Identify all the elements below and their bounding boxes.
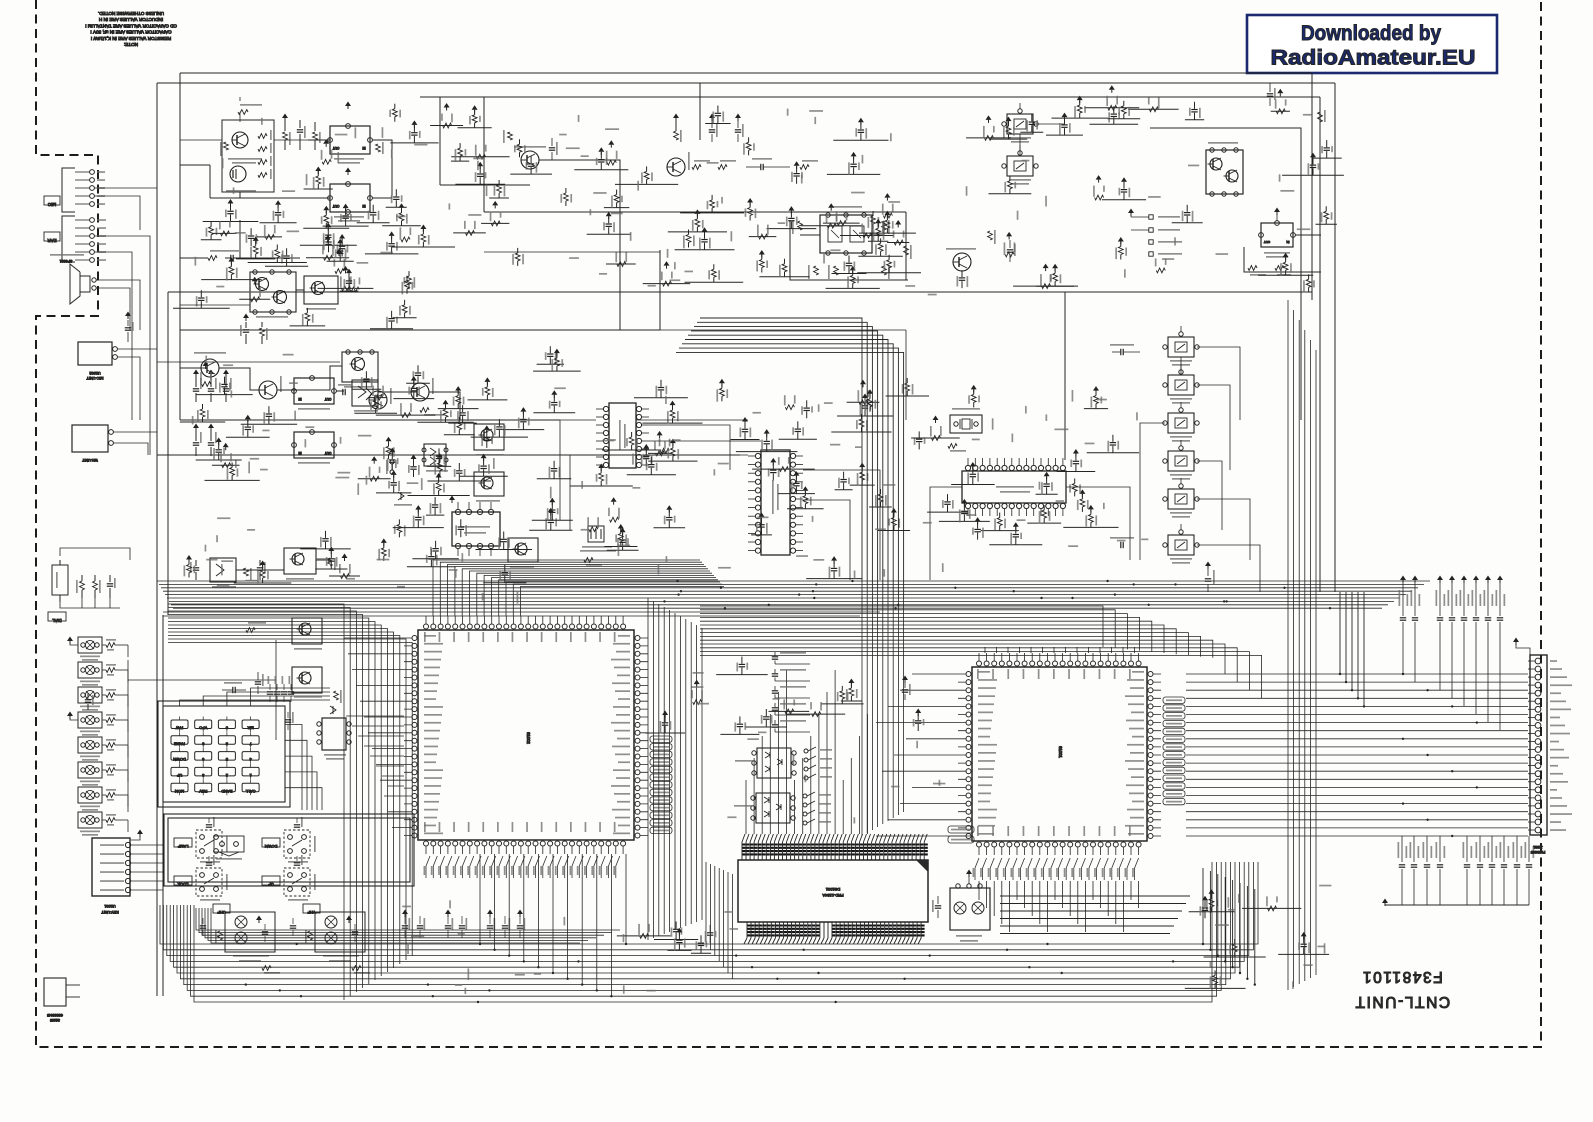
resonator DB1001 CSMC3.58 xyxy=(588,526,604,542)
wire switch col xyxy=(1020,124,1260,592)
bus fan top-center to right-mid verticals xyxy=(676,318,904,598)
ground xyxy=(1202,896,1208,901)
ground xyxy=(472,105,478,110)
wire xyxy=(236,258,275,260)
resistor R1377 xyxy=(402,413,411,418)
wire xyxy=(386,206,407,208)
ground xyxy=(260,561,266,566)
wire xyxy=(1084,408,1108,410)
capacitor C1543 xyxy=(365,382,367,389)
wire xyxy=(340,290,359,292)
resistor R1475 xyxy=(841,699,843,704)
wire xyxy=(858,255,903,257)
bus right vertical extra xyxy=(1203,592,1364,985)
capacitor C1078 0.1 xyxy=(711,120,713,128)
wire xyxy=(1057,471,1096,473)
capacitor C1687 xyxy=(675,933,677,940)
svg-text:DS1001: DS1001 xyxy=(825,887,840,892)
resistor R1445 xyxy=(317,184,319,189)
resistor 470 xyxy=(308,931,313,940)
ground xyxy=(1013,522,1019,527)
resistor R1556 xyxy=(827,223,836,228)
resistor R1065 xyxy=(906,391,908,396)
wire xyxy=(440,160,906,212)
wire xyxy=(736,451,798,453)
key switch DOWN xyxy=(171,752,188,761)
wire xyxy=(351,388,381,390)
switch S1006 MSD9005A xyxy=(214,836,244,852)
svg-text:DIAL: DIAL xyxy=(52,618,62,623)
resistor R1731 xyxy=(749,216,751,221)
capacitor C1091 xyxy=(1009,240,1011,248)
ground xyxy=(548,508,554,513)
ground xyxy=(228,257,234,262)
ground xyxy=(759,250,765,255)
ground xyxy=(67,712,73,717)
svg-text:Downloaded by: Downloaded by xyxy=(1301,21,1441,45)
resistor R1473 xyxy=(1074,491,1076,496)
ground xyxy=(694,209,700,214)
resistor R1088 100K xyxy=(334,691,339,700)
microphone unit U1002 MIC-UNIT xyxy=(78,342,112,365)
wire xyxy=(801,225,862,227)
resistor R1104 xyxy=(893,526,895,531)
resistor R1633 xyxy=(852,283,854,288)
opto-coupler Q1013 LN127155 xyxy=(78,662,102,678)
ground xyxy=(735,114,741,119)
resistor R1584 xyxy=(656,451,665,456)
resistor R1691 xyxy=(1095,195,1104,200)
capacitor C1152 xyxy=(519,916,521,924)
svg-text:UHF: UHF xyxy=(217,910,226,915)
svg-text:EAR: EAR xyxy=(47,238,57,243)
ground xyxy=(346,916,352,921)
ground xyxy=(694,680,700,685)
diode block Q1020 DA221 xyxy=(352,380,378,406)
wire xyxy=(787,508,824,510)
ground xyxy=(1274,208,1280,213)
analog switch Q1015-5 M.N.MS66BW xyxy=(1007,156,1033,176)
resistor R1056b 15K xyxy=(718,165,727,170)
capacitor C1083 xyxy=(247,430,249,437)
resistor R1257 xyxy=(620,542,622,547)
ground xyxy=(455,386,461,391)
wire xyxy=(370,328,413,330)
wire xyxy=(779,438,817,440)
resistor R1373 xyxy=(265,235,274,240)
capacitor C1730 xyxy=(550,523,552,530)
resistor R1532 xyxy=(325,223,327,228)
IC2 pins right column xyxy=(1153,674,1161,836)
resistor R1146 xyxy=(883,213,892,218)
wire xyxy=(127,795,129,807)
resistor R1254 xyxy=(498,193,500,198)
capacitor C1008 0.001 25V xyxy=(1439,836,1441,862)
resistor R1269 xyxy=(262,578,264,583)
wire xyxy=(296,289,304,291)
resistor R1084 470 xyxy=(352,966,361,971)
wire xyxy=(1282,174,1344,176)
capacitor C1514 xyxy=(413,470,415,477)
ground xyxy=(325,235,331,240)
capacitor C22p right xyxy=(904,682,906,688)
wire xyxy=(607,549,639,551)
ground xyxy=(549,498,555,503)
ground xyxy=(884,193,890,198)
transistor Q1021 2SB1132 xyxy=(259,381,277,399)
resistor R1006 xyxy=(188,573,190,578)
resistor R1710 xyxy=(872,224,874,229)
resistor R1075 xyxy=(508,132,513,140)
opto-coupler Q1008 LN127155 xyxy=(78,787,102,803)
banner box Downloaded by RadioAmateur.EU xyxy=(1247,15,1497,73)
resistor R1900 xyxy=(388,454,390,459)
wire xyxy=(451,156,509,158)
ground xyxy=(1209,889,1215,894)
svg-text:RESISTOR VALUES ARE IN K,1/16W: RESISTOR VALUES ARE IN K,1/16W ! xyxy=(91,36,171,41)
crystal X1002 4.19MHz xyxy=(950,415,982,433)
resistor R1294 xyxy=(474,123,476,128)
volume pot R1056 DIAL xyxy=(52,565,68,595)
connector J1001 P1090805 xyxy=(1530,655,1547,835)
key switch 0 xyxy=(218,720,235,729)
label EAR xyxy=(44,232,60,241)
wire xyxy=(300,244,357,246)
wire xyxy=(127,745,129,757)
resistor R1587 xyxy=(1268,906,1277,911)
resistor R1124 100K xyxy=(224,142,229,150)
resistor R1479 xyxy=(438,491,440,496)
resistor R1203 xyxy=(693,700,702,705)
resistor R1429 xyxy=(985,136,994,141)
wire xyxy=(1036,285,1074,287)
wire xyxy=(841,700,862,702)
svg-text:OUT: OUT xyxy=(325,451,332,455)
resistor R1056 10K xyxy=(80,581,85,590)
varactor block Q1003v CL-15SUA/B-01 xyxy=(225,912,275,952)
resistor R1175 xyxy=(785,405,794,410)
resistor R1031 3.3K xyxy=(882,266,887,275)
ground xyxy=(608,140,614,145)
wire xyxy=(1131,216,1149,218)
ground xyxy=(444,103,450,108)
ground xyxy=(193,370,199,375)
resistor R1044 xyxy=(1308,287,1310,292)
bus IC1 bottom drops xyxy=(480,854,626,996)
capacitor C1011 0.001 25V xyxy=(1401,836,1403,862)
wire xyxy=(1046,134,1083,136)
resistor R1469 xyxy=(394,117,396,122)
ground xyxy=(445,910,451,915)
resistor R1024 xyxy=(341,574,350,579)
capacitor C1088 xyxy=(479,177,481,184)
capacitor C1150 xyxy=(489,916,491,924)
capacitor C1273 xyxy=(458,474,460,481)
wire xyxy=(643,283,691,285)
resistor R1756 xyxy=(711,208,713,213)
wire xyxy=(1052,117,1108,119)
regulator Q1016 S-80230BN-DT xyxy=(1261,223,1293,247)
wire xyxy=(304,188,333,190)
wire xyxy=(634,397,688,399)
capacitor C1575 xyxy=(339,254,341,261)
svg-text:U1001: U1001 xyxy=(104,904,115,908)
key switch BAND xyxy=(218,783,235,792)
bus right-mid vertical xyxy=(862,582,904,836)
resistor R1187 xyxy=(1149,107,1158,112)
wire xyxy=(705,123,730,125)
wire xyxy=(1172,222,1203,224)
ground xyxy=(850,266,856,271)
bus center vertical xyxy=(648,598,702,940)
resistor R1368 xyxy=(869,407,871,412)
svg-text:UNLESS OTHERWISE NOTED.: UNLESS OTHERWISE NOTED. xyxy=(98,11,164,16)
ground xyxy=(337,239,343,244)
ground xyxy=(1079,489,1085,494)
capacitor C1201 xyxy=(553,406,555,413)
ground xyxy=(770,458,776,463)
capacitor C1014 0.001 25V xyxy=(1412,576,1418,581)
capacitor C1112 xyxy=(1075,465,1077,472)
ground xyxy=(252,277,258,282)
resistor R1659 xyxy=(1005,252,1014,257)
capacitor C1117 top xyxy=(127,320,129,326)
resistor R1139 xyxy=(1120,255,1122,260)
wire xyxy=(1108,118,1141,120)
ground xyxy=(933,416,939,421)
wire xyxy=(336,391,460,420)
wire xyxy=(127,720,129,732)
wire xyxy=(236,560,330,570)
bus bottom horizontal sweep xyxy=(160,862,1258,1002)
transistor block Q1016b DTA144EE xyxy=(284,548,316,574)
dual diode Q1015d 1SS349 xyxy=(424,444,446,466)
ground xyxy=(275,200,281,205)
resistor R1374 xyxy=(466,231,475,236)
transistor block Q1017 XP4312 xyxy=(1206,150,1243,194)
svg-text:OUT: OUT xyxy=(1264,240,1271,244)
svg-text:MIC: MIC xyxy=(47,202,56,207)
capacitor C1010 0.001 25V xyxy=(1413,836,1415,862)
ground xyxy=(484,377,490,382)
wire xyxy=(212,464,240,466)
wire xyxy=(196,459,242,461)
wire xyxy=(417,421,473,423)
capacitor C1880 xyxy=(668,521,670,528)
ground xyxy=(328,547,334,552)
wire xyxy=(392,246,455,248)
opto-coupler Q1007 LN127155 xyxy=(78,812,102,828)
ground xyxy=(481,454,487,459)
transistor Q1032 2SC4617 xyxy=(201,359,219,377)
wire xyxy=(680,212,744,214)
svg-text:61002: 61002 xyxy=(526,732,531,744)
wire xyxy=(113,432,157,455)
switch S1005 GB000045 xyxy=(44,978,66,1006)
wire xyxy=(823,222,860,224)
ground xyxy=(764,429,770,434)
resistor R1102 xyxy=(663,281,672,286)
svg-text:P1090805: P1090805 xyxy=(1531,850,1546,854)
wire xyxy=(648,460,697,462)
diode D1007 MA111 xyxy=(330,706,336,714)
bus keypad to right xyxy=(346,716,404,786)
capacitor C1213 xyxy=(277,216,279,223)
resistor R1776 xyxy=(812,712,821,717)
ground xyxy=(208,424,214,429)
capacitor C1691 xyxy=(549,357,551,364)
wire xyxy=(537,478,572,480)
svg-text:VHF: VHF xyxy=(307,910,316,915)
wire xyxy=(327,260,354,262)
svg-text:CD CAPACITOR VALUES ARE TANTAL: CD CAPACITOR VALUES ARE TANTALUM ! xyxy=(85,23,177,28)
wire xyxy=(471,436,528,438)
ground xyxy=(449,496,455,501)
ground xyxy=(411,376,417,381)
tact switch S1004 MSD9001F1 xyxy=(196,830,222,858)
wire xyxy=(430,125,463,127)
resistor R1463 xyxy=(932,436,941,441)
wire xyxy=(749,236,777,238)
transistor Q1008 2SA1774 xyxy=(232,132,248,148)
transistor Q1013 2SB1132 xyxy=(369,391,387,409)
ground xyxy=(125,312,131,317)
wire xyxy=(660,220,908,292)
wire xyxy=(1027,522,1061,524)
ground xyxy=(618,524,624,529)
resistor R1651 xyxy=(342,286,351,291)
resistor R1368 xyxy=(877,236,879,241)
capacitor C1179 xyxy=(498,430,500,437)
IC1 right net tags SEG41-SEG53 xyxy=(650,736,672,742)
IC2 pins left column xyxy=(876,674,966,836)
label smudge noise xyxy=(559,134,567,136)
capacitor xyxy=(296,856,298,861)
ground xyxy=(673,114,679,119)
wire xyxy=(691,952,711,954)
capacitor C1106 xyxy=(299,120,301,128)
diode array D1005 UBN11M xyxy=(757,748,791,778)
wire xyxy=(393,398,434,400)
capacitor C1036 xyxy=(917,724,919,731)
wire xyxy=(826,287,880,289)
resistor R1102 xyxy=(617,262,626,267)
wire xyxy=(769,710,810,712)
ground xyxy=(895,220,901,225)
wire xyxy=(886,395,930,397)
switch section frame xyxy=(168,818,410,882)
wire xyxy=(869,506,892,508)
capacitor C1323 xyxy=(741,668,743,675)
wire xyxy=(587,233,631,235)
wire xyxy=(426,514,444,516)
resistor R1107 xyxy=(406,289,408,294)
wire xyxy=(606,263,636,265)
wire xyxy=(1087,452,1139,454)
ground xyxy=(137,830,143,835)
capacitor C1303 xyxy=(328,245,330,252)
wire xyxy=(318,287,374,289)
wire xyxy=(393,527,444,529)
resistor R1126 vertical xyxy=(1319,97,1321,110)
wire xyxy=(265,265,308,267)
wire xyxy=(645,732,685,734)
wire xyxy=(357,222,390,224)
ground xyxy=(399,203,405,208)
wire xyxy=(654,939,698,941)
resistor R1215 xyxy=(861,480,863,485)
ground xyxy=(415,505,421,510)
ground xyxy=(1052,264,1058,269)
resistor R1239 xyxy=(688,243,690,248)
wire xyxy=(989,544,1042,546)
resistor R1332 xyxy=(1079,113,1081,118)
wire xyxy=(503,429,545,431)
capacitor C1029 xyxy=(292,918,294,924)
resistor R1462 xyxy=(748,150,750,155)
capacitor C1998 xyxy=(600,163,602,170)
capacitor C1589 xyxy=(833,572,835,579)
ground xyxy=(759,512,765,517)
wire xyxy=(428,480,492,482)
ground xyxy=(389,448,395,453)
ground xyxy=(381,538,387,543)
ground xyxy=(345,168,351,173)
ground xyxy=(386,437,392,442)
resistor R1113 xyxy=(404,313,406,318)
wire xyxy=(837,415,893,417)
capacitor C1898 xyxy=(345,219,347,226)
transistor block Q1025k QTC1432E xyxy=(292,618,322,644)
key switch 2 xyxy=(218,767,235,776)
wire xyxy=(1036,493,1058,495)
wire xyxy=(481,222,509,224)
resistor R1808 xyxy=(1276,109,1285,114)
ground xyxy=(1277,89,1283,94)
capacitor C1125 xyxy=(1064,128,1066,135)
key switch VFO xyxy=(195,720,212,729)
wire xyxy=(453,232,486,234)
ground xyxy=(828,203,834,208)
capacitor C1752 xyxy=(766,445,768,452)
wire xyxy=(459,475,507,477)
ground xyxy=(598,464,604,469)
wire xyxy=(832,273,867,275)
capacitor C1011 xyxy=(393,486,395,493)
resistor R1057 10K xyxy=(93,581,98,590)
capacitor C1490 xyxy=(268,417,270,424)
capacitor C1809 xyxy=(772,473,774,480)
capacitor xyxy=(195,430,197,441)
regulator Q1030 S-80230BN-DT xyxy=(330,126,370,154)
ground xyxy=(1121,177,1127,182)
label DOWN xyxy=(262,838,280,847)
wire xyxy=(407,566,456,568)
analog switch Q1015-1 M.N.MS66BW xyxy=(1168,413,1194,433)
ground xyxy=(67,637,73,642)
resistor R1004 xyxy=(231,475,233,480)
capacitor C1093 xyxy=(1015,538,1017,545)
wire xyxy=(831,431,891,433)
resistor R1459 xyxy=(230,275,232,280)
wire xyxy=(778,493,815,495)
wire xyxy=(315,568,347,570)
wire xyxy=(180,366,342,390)
wire xyxy=(239,97,241,122)
label UP xyxy=(262,876,280,885)
ground xyxy=(186,555,192,560)
wire xyxy=(533,412,575,414)
